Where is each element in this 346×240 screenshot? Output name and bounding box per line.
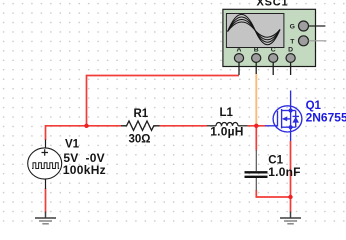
svg-text:B: B <box>254 47 259 54</box>
svg-text:A: A <box>237 47 242 54</box>
svg-text:R1: R1 <box>134 108 149 120</box>
svg-text:L1: L1 <box>220 107 234 119</box>
svg-text:2N6755: 2N6755 <box>306 110 346 124</box>
svg-text:C: C <box>271 47 276 54</box>
svg-text:100kHz: 100kHz <box>63 163 106 177</box>
svg-text:1.0µH: 1.0µH <box>210 125 243 139</box>
svg-text:D: D <box>288 47 293 54</box>
svg-text:XSC1: XSC1 <box>257 0 289 9</box>
svg-text:30Ω: 30Ω <box>129 133 151 145</box>
svg-text:V1: V1 <box>65 138 80 150</box>
svg-text:G: G <box>290 24 295 31</box>
svg-text:1.0nF: 1.0nF <box>268 165 300 179</box>
